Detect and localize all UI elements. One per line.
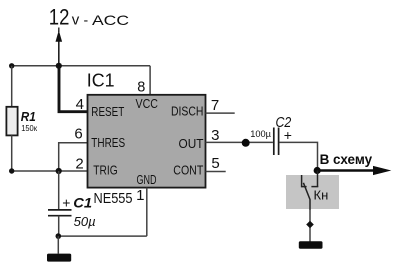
svg-text:NE555: NE555 — [94, 190, 133, 207]
ground right — [299, 241, 323, 249]
wire trig — [12, 170, 88, 172]
button Kn box — [286, 175, 339, 209]
svg-text:DISCH: DISCH — [171, 104, 203, 119]
wire thres — [59, 143, 88, 171]
svg-text:C1: C1 — [73, 195, 92, 210]
svg-text:+: + — [284, 127, 292, 143]
ground left — [47, 254, 71, 262]
svg-text:TRIG: TRIG — [93, 162, 117, 177]
svg-text:1: 1 — [136, 187, 144, 204]
svg-text:RESET: RESET — [91, 104, 124, 119]
button fixed contact left — [302, 175, 307, 187]
wire gnd rail bottom — [58, 235, 147, 237]
node trig mid junction — [56, 168, 62, 174]
node trig left junction — [9, 168, 14, 173]
svg-text:ACC: ACC — [92, 12, 129, 28]
svg-text:50µ: 50µ — [74, 215, 96, 229]
wire cont stub pin5 — [206, 171, 226, 173]
wire C1 to gnd rail — [58, 216, 60, 236]
wire pin1 gnd drop — [146, 188, 148, 237]
wire out to switch corner — [279, 142, 317, 170]
button fixed contact right — [311, 186, 318, 188]
svg-text:Кн: Кн — [314, 188, 329, 203]
svg-text:В схему: В схему — [320, 151, 373, 167]
wire disch stub pin7 — [206, 112, 235, 114]
svg-text:6: 6 — [74, 126, 82, 143]
wire left rail lower — [11, 135, 13, 171]
wire junction into button — [317, 171, 319, 187]
wire lever to ground — [309, 210, 311, 242]
svg-text:100µ: 100µ — [250, 128, 271, 139]
svg-text:+: + — [62, 194, 70, 210]
power arrow up — [56, 28, 63, 67]
IC U1 NE555 box — [88, 95, 206, 188]
arrow to circuit — [317, 166, 391, 175]
power label 12 v - ACC — [49, 5, 129, 30]
node out junction — [242, 139, 250, 147]
svg-text:3: 3 — [211, 127, 219, 144]
wire reset thick — [59, 66, 88, 112]
svg-text:GND: GND — [137, 172, 157, 187]
svg-text:7: 7 — [211, 97, 219, 114]
svg-text:THRES: THRES — [91, 135, 125, 150]
node out arrow junction — [314, 167, 321, 174]
capacitor C1 — [48, 210, 72, 216]
svg-text:OUT: OUT — [179, 136, 204, 151]
svg-text:8: 8 — [137, 80, 145, 96]
wire top rail — [12, 65, 150, 67]
svg-text:-: - — [84, 12, 89, 28]
resistor R1 — [6, 107, 17, 136]
wire pin8 drop — [149, 66, 151, 95]
node junction top-left — [9, 63, 14, 68]
node lever diamond — [306, 221, 314, 229]
node gnd junction — [56, 233, 62, 239]
svg-text:12: 12 — [49, 5, 70, 30]
wire left rail upper — [11, 66, 13, 107]
node junction arrow base — [56, 63, 62, 69]
svg-text:2: 2 — [75, 156, 83, 173]
svg-text:VCC: VCC — [136, 96, 159, 111]
button lever — [303, 183, 310, 210]
svg-text:IC1: IC1 — [87, 70, 115, 91]
capacitor C2 — [274, 128, 279, 156]
svg-text:5: 5 — [211, 155, 219, 172]
svg-text:CONT: CONT — [173, 163, 203, 178]
svg-text:150к: 150к — [21, 123, 37, 133]
svg-text:4: 4 — [76, 96, 84, 113]
wire out pin3 — [206, 141, 273, 143]
wire C1 branch from trig node — [58, 171, 60, 210]
svg-text:v: v — [72, 12, 80, 29]
wire to left ground — [57, 236, 59, 254]
